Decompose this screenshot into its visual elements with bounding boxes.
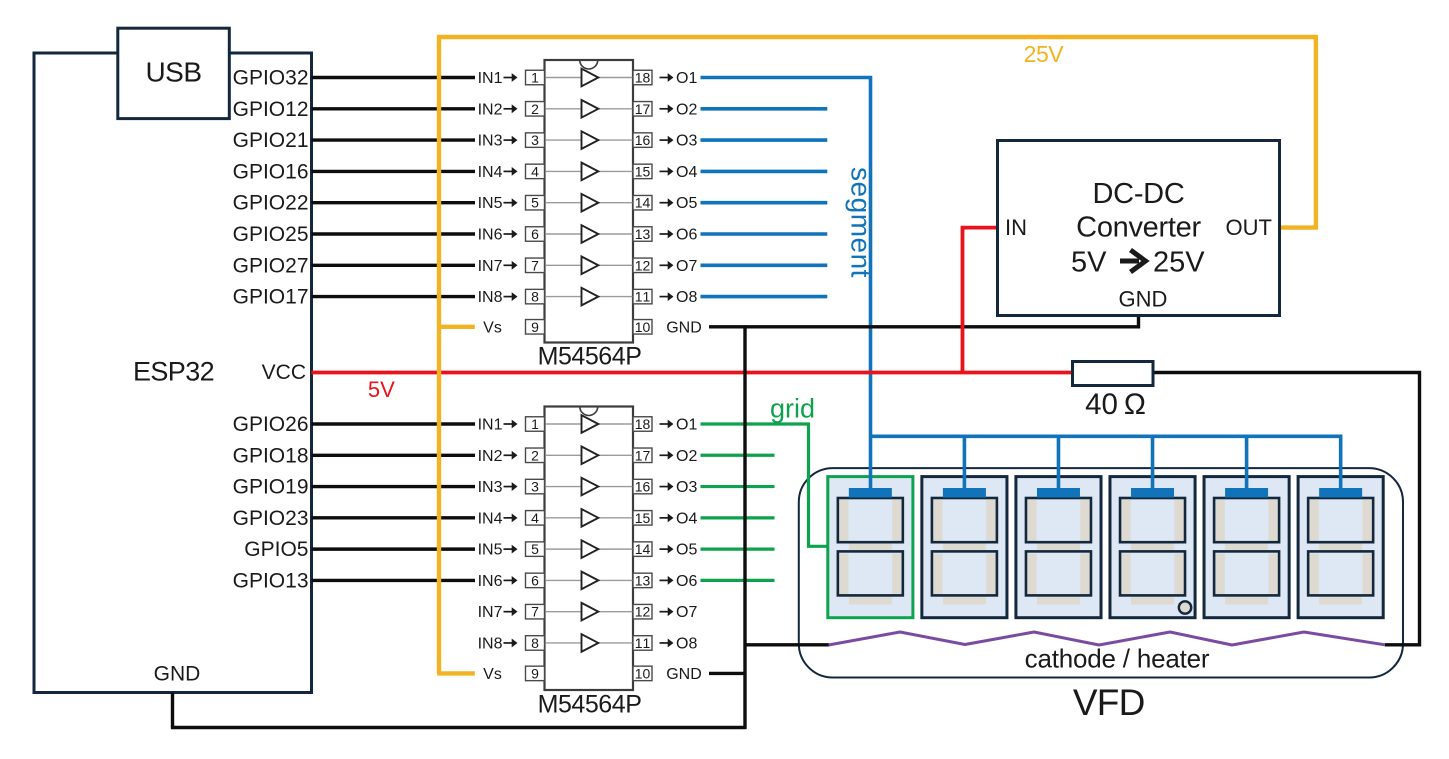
svg-text:IN2: IN2 — [478, 448, 503, 465]
svg-text:8: 8 — [531, 289, 539, 305]
svg-text:GPIO19: GPIO19 — [233, 476, 309, 499]
svg-text:12: 12 — [635, 257, 651, 273]
svg-text:6: 6 — [531, 226, 539, 242]
svg-text:13: 13 — [635, 226, 651, 242]
svg-text:GND: GND — [1119, 287, 1168, 312]
svg-text:IN3: IN3 — [478, 479, 503, 496]
svg-text:segment: segment — [846, 167, 877, 278]
svg-text:5V: 5V — [368, 377, 395, 402]
svg-text:1: 1 — [531, 70, 539, 86]
svg-text:16: 16 — [635, 479, 651, 495]
svg-text:cathode / heater: cathode / heater — [1025, 644, 1210, 674]
svg-text:16: 16 — [635, 132, 651, 148]
svg-text:O7: O7 — [676, 258, 697, 275]
svg-text:GPIO23: GPIO23 — [233, 507, 309, 530]
svg-text:O2: O2 — [676, 101, 697, 118]
svg-text:8: 8 — [531, 635, 539, 651]
svg-text:2: 2 — [531, 447, 539, 463]
svg-text:IN7: IN7 — [478, 604, 503, 621]
svg-text:IN6: IN6 — [478, 227, 503, 244]
svg-text:14: 14 — [635, 541, 651, 557]
svg-text:IN: IN — [1005, 215, 1027, 240]
svg-text:15: 15 — [635, 510, 651, 526]
svg-text:18: 18 — [635, 70, 651, 86]
svg-text:GPIO22: GPIO22 — [233, 192, 309, 215]
svg-text:IN5: IN5 — [478, 542, 503, 559]
svg-text:GPIO27: GPIO27 — [233, 254, 309, 277]
svg-text:40 Ω: 40 Ω — [1085, 388, 1146, 421]
svg-text:GPIO26: GPIO26 — [233, 413, 309, 436]
svg-text:O8: O8 — [676, 635, 697, 652]
svg-text:14: 14 — [635, 195, 651, 211]
svg-text:O8: O8 — [676, 289, 697, 306]
svg-text:O7: O7 — [676, 604, 697, 621]
svg-text:10: 10 — [635, 319, 651, 335]
svg-text:10: 10 — [635, 665, 651, 681]
svg-text:17: 17 — [635, 101, 651, 117]
svg-text:O3: O3 — [676, 479, 697, 496]
svg-text:11: 11 — [635, 635, 651, 651]
svg-text:IN1: IN1 — [478, 70, 503, 87]
svg-text:VFD: VFD — [1073, 682, 1145, 723]
svg-text:GPIO25: GPIO25 — [233, 223, 309, 246]
svg-text:O2: O2 — [676, 448, 697, 465]
svg-text:GPIO21: GPIO21 — [233, 129, 309, 152]
svg-text:Vs: Vs — [483, 666, 502, 683]
svg-text:2: 2 — [531, 101, 539, 117]
svg-text:IN4: IN4 — [478, 164, 503, 181]
svg-text:4: 4 — [531, 510, 539, 526]
svg-text:O4: O4 — [676, 164, 697, 181]
svg-text:Converter: Converter — [1076, 212, 1201, 244]
svg-text:ESP32: ESP32 — [133, 357, 214, 387]
svg-text:O1: O1 — [676, 417, 697, 434]
svg-text:25V: 25V — [1024, 41, 1065, 67]
svg-text:GND: GND — [666, 319, 702, 336]
svg-text:grid: grid — [770, 394, 815, 424]
svg-text:IN1: IN1 — [478, 417, 503, 434]
svg-text:DC-DC: DC-DC — [1093, 178, 1185, 210]
svg-text:O3: O3 — [676, 133, 697, 150]
svg-text:GPIO12: GPIO12 — [233, 98, 309, 121]
svg-text:IN6: IN6 — [478, 573, 503, 590]
svg-text:9: 9 — [531, 319, 539, 335]
svg-text:13: 13 — [635, 572, 651, 588]
svg-text:O6: O6 — [676, 573, 697, 590]
svg-text:17: 17 — [635, 447, 651, 463]
svg-text:IN2: IN2 — [478, 101, 503, 118]
svg-text:15: 15 — [635, 163, 651, 179]
svg-text:Vs: Vs — [483, 319, 502, 336]
svg-text:O1: O1 — [676, 70, 697, 87]
svg-text:4: 4 — [531, 163, 539, 179]
svg-text:25V: 25V — [1153, 247, 1205, 279]
svg-text:IN4: IN4 — [478, 510, 503, 527]
svg-text:O5: O5 — [676, 195, 697, 212]
svg-text:IN3: IN3 — [478, 133, 503, 150]
svg-text:7: 7 — [531, 604, 539, 620]
svg-text:12: 12 — [635, 604, 651, 620]
svg-text:18: 18 — [635, 416, 651, 432]
svg-text:3: 3 — [531, 479, 539, 495]
svg-text:3: 3 — [531, 132, 539, 148]
svg-text:GPIO17: GPIO17 — [233, 286, 309, 309]
svg-text:VCC: VCC — [262, 361, 306, 384]
svg-text:M54564P: M54564P — [538, 343, 642, 371]
svg-text:OUT: OUT — [1226, 215, 1272, 240]
svg-text:IN5: IN5 — [478, 195, 503, 212]
svg-text:O4: O4 — [676, 510, 697, 527]
svg-text:GND: GND — [154, 662, 201, 685]
svg-text:O5: O5 — [676, 542, 697, 559]
svg-text:IN7: IN7 — [478, 258, 503, 275]
svg-text:GPIO18: GPIO18 — [233, 444, 309, 467]
svg-text:O6: O6 — [676, 227, 697, 244]
svg-text:1: 1 — [531, 416, 539, 432]
svg-text:IN8: IN8 — [478, 635, 503, 652]
svg-text:7: 7 — [531, 257, 539, 273]
svg-text:USB: USB — [145, 57, 201, 88]
svg-text:GPIO13: GPIO13 — [233, 569, 309, 592]
svg-text:5: 5 — [531, 195, 539, 211]
svg-text:5: 5 — [531, 541, 539, 557]
svg-text:GPIO16: GPIO16 — [233, 160, 309, 183]
svg-text:GPIO5: GPIO5 — [244, 538, 308, 561]
svg-text:GND: GND — [666, 666, 702, 683]
svg-text:11: 11 — [635, 289, 651, 305]
svg-text:GPIO32: GPIO32 — [233, 67, 309, 90]
svg-text:M54564P: M54564P — [538, 691, 642, 719]
svg-text:IN8: IN8 — [478, 289, 503, 306]
svg-text:9: 9 — [531, 665, 539, 681]
svg-text:6: 6 — [531, 572, 539, 588]
svg-text:5V: 5V — [1071, 247, 1107, 279]
